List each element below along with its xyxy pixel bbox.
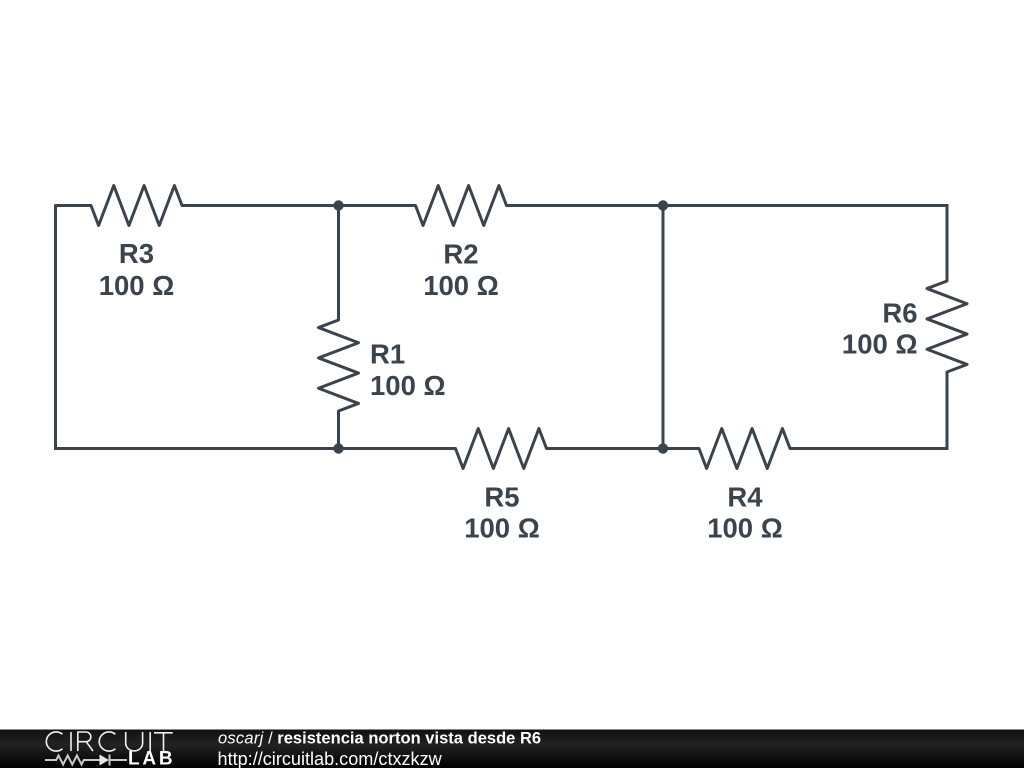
svg-text:R1: R1 — [370, 339, 405, 370]
svg-text:R5: R5 — [484, 482, 519, 513]
svg-text:oscarj / resistencia norton vi: oscarj / resistencia norton vista desde … — [218, 730, 541, 748]
svg-text:100 Ω: 100 Ω — [423, 270, 499, 301]
svg-text:100 Ω: 100 Ω — [707, 513, 783, 544]
svg-text:100 Ω: 100 Ω — [370, 370, 446, 401]
svg-text:100 Ω: 100 Ω — [99, 270, 175, 301]
svg-text:http://circuitlab.com/ctxzkzw: http://circuitlab.com/ctxzkzw — [218, 749, 443, 768]
svg-text:R3: R3 — [119, 238, 154, 269]
svg-text:R2: R2 — [443, 239, 478, 270]
svg-text:100 Ω: 100 Ω — [464, 513, 540, 544]
svg-text:100 Ω: 100 Ω — [842, 329, 918, 360]
svg-text:LAB: LAB — [128, 749, 175, 768]
svg-text:R6: R6 — [882, 298, 917, 329]
svg-text:R4: R4 — [727, 482, 763, 513]
